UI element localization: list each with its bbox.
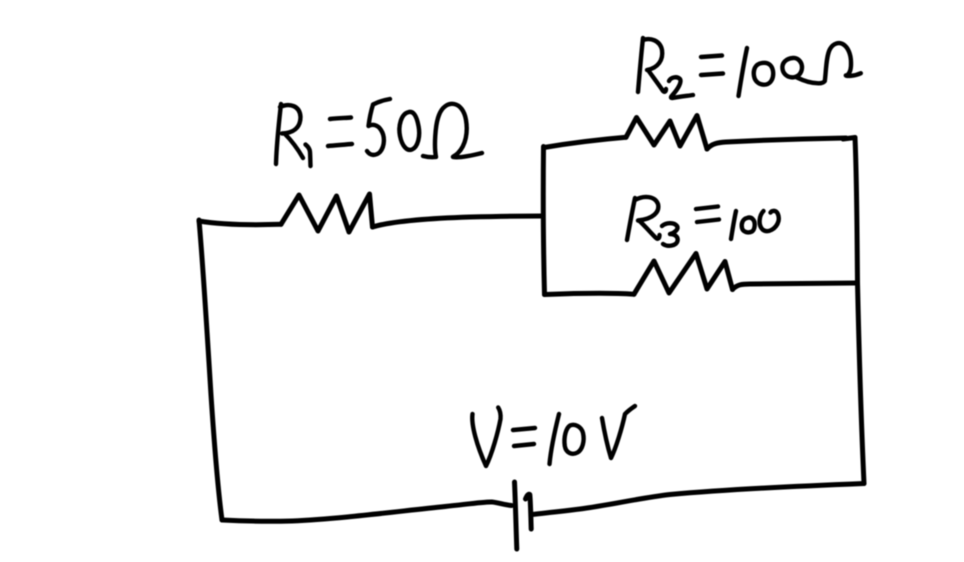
wire: right vertical lower — [858, 283, 865, 484]
label R3 value: R — [627, 197, 660, 240]
label R2 digit 0 — [782, 58, 802, 77]
resistor R3 — [634, 254, 733, 295]
label R1 digit 0 — [399, 112, 419, 150]
wire: R3 to box right edge — [733, 283, 857, 290]
label R3 digit 1 — [731, 211, 736, 239]
wire: box top edge lead — [544, 137, 626, 147]
label R1 equals — [328, 118, 352, 147]
label R3 equals — [696, 207, 719, 223]
resistor R2 — [626, 116, 707, 150]
wire: R2 to top right corner — [707, 138, 855, 150]
battery V1 long plate — [515, 482, 517, 549]
label R2 digit 1 — [739, 48, 748, 96]
battery V1 short plate — [526, 494, 532, 529]
label R2 digit 0 — [754, 63, 773, 85]
label R2 equals — [701, 56, 723, 76]
wire: right vertical upper (box right edge) — [855, 138, 858, 284]
label R2 subscript 2 — [669, 77, 693, 98]
wire: parallel box left edge — [543, 147, 544, 295]
label V digit 1 — [550, 414, 560, 464]
label R2 value: R — [638, 38, 666, 92]
label R3 digit 0 — [760, 211, 779, 231]
label V equals — [513, 428, 535, 446]
label V value: V — [472, 408, 500, 467]
wire: bottom left — [222, 502, 512, 521]
resistor R1 — [281, 194, 373, 232]
label R3 digit 0 — [742, 217, 755, 232]
wire: top-left horizontal segment — [199, 221, 281, 225]
label R1 digit 5 — [367, 99, 390, 155]
wire: R1 to parallel box — [373, 216, 543, 227]
wire: bottom right — [532, 484, 864, 515]
label V unit V — [602, 406, 635, 458]
label R1 ohm — [423, 104, 482, 157]
label R1 subscript 1 — [306, 145, 311, 167]
wire: box bottom edge lead — [545, 293, 635, 294]
label R1 value: R — [276, 104, 303, 164]
label R3 subscript 3 — [662, 223, 678, 246]
label V digit 0 — [564, 425, 583, 454]
label R2 ohm — [797, 43, 861, 83]
wire: left vertical — [199, 220, 222, 520]
